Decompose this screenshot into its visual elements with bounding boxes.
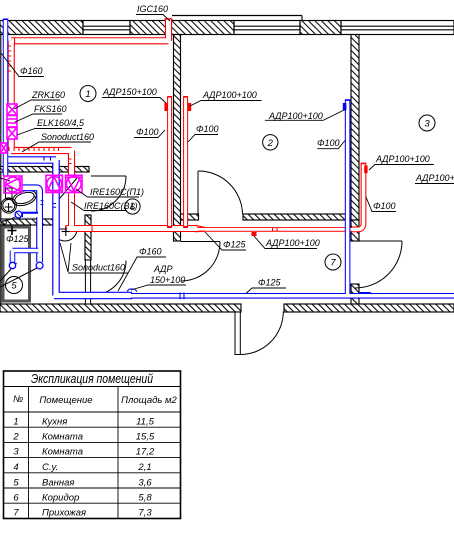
svg-text:АДР: АДР [153, 264, 172, 274]
svg-text:7: 7 [330, 258, 336, 269]
svg-text:5,8: 5,8 [138, 493, 152, 504]
svg-text:7,3: 7,3 [138, 508, 152, 519]
svg-text:150+100: 150+100 [150, 275, 185, 285]
svg-text:Коридор: Коридор [42, 493, 79, 504]
svg-text:Прихожая: Прихожая [42, 508, 86, 519]
svg-text:Помещение: Помещение [39, 395, 92, 406]
svg-text:FKS160: FKS160 [34, 104, 67, 114]
svg-text:5: 5 [13, 478, 19, 489]
svg-text:Φ100: Φ100 [373, 201, 396, 211]
svg-text:Ванная: Ванная [42, 478, 74, 489]
svg-text:Φ125: Φ125 [6, 234, 30, 244]
svg-text:1: 1 [85, 89, 90, 100]
svg-text:11,5: 11,5 [136, 417, 155, 428]
svg-text:3: 3 [424, 119, 430, 130]
svg-text:Sonoduct160: Sonoduct160 [72, 263, 125, 273]
svg-text:Комната: Комната [42, 447, 83, 458]
svg-text:7: 7 [13, 508, 19, 519]
svg-text:С.у.: С.у. [42, 462, 58, 473]
svg-text:6: 6 [13, 493, 19, 504]
svg-text:Комната: Комната [42, 432, 83, 443]
svg-text:АДР100+: АДР100+ [415, 173, 454, 183]
svg-text:АДР100+100: АДР100+100 [265, 238, 320, 248]
svg-text:15,5: 15,5 [136, 432, 155, 443]
svg-text:3,6: 3,6 [138, 478, 152, 489]
svg-text:АДР100+100: АДР100+100 [375, 154, 430, 164]
svg-text:Φ160: Φ160 [139, 247, 162, 257]
svg-text:Φ160: Φ160 [20, 66, 43, 76]
svg-text:АДР150+100: АДР150+100 [102, 87, 157, 97]
svg-text:6: 6 [130, 202, 136, 213]
svg-text:17,2: 17,2 [136, 447, 155, 458]
svg-text:Φ100: Φ100 [196, 124, 219, 134]
svg-text:5: 5 [11, 281, 17, 292]
svg-text:IGC160: IGC160 [137, 4, 168, 14]
svg-text:№: № [13, 394, 23, 405]
svg-text:Экспликация помещений: Экспликация помещений [31, 372, 153, 386]
svg-text:АДР100+100: АДР100+100 [268, 111, 323, 121]
svg-text:3: 3 [13, 447, 19, 458]
svg-text:ZRK160: ZRK160 [31, 90, 65, 100]
svg-text:Площадь м2: Площадь м2 [121, 395, 177, 406]
svg-text:ELK160/4,5: ELK160/4,5 [37, 118, 85, 128]
svg-text:1: 1 [13, 417, 18, 428]
svg-text:Φ125: Φ125 [223, 240, 247, 250]
svg-text:Φ100: Φ100 [317, 138, 340, 148]
svg-text:АДР100+100: АДР100+100 [202, 90, 257, 100]
svg-text:Кухня: Кухня [42, 417, 67, 428]
svg-text:Φ100: Φ100 [136, 127, 159, 137]
svg-text:2,1: 2,1 [137, 462, 151, 473]
svg-text:2: 2 [267, 138, 274, 149]
svg-text:Φ125: Φ125 [258, 278, 282, 288]
svg-text:4: 4 [13, 462, 18, 473]
svg-text:2: 2 [12, 432, 19, 443]
svg-text:IRE160C(П1): IRE160C(П1) [90, 187, 144, 197]
svg-text:Sonoduct160: Sonoduct160 [41, 132, 94, 142]
